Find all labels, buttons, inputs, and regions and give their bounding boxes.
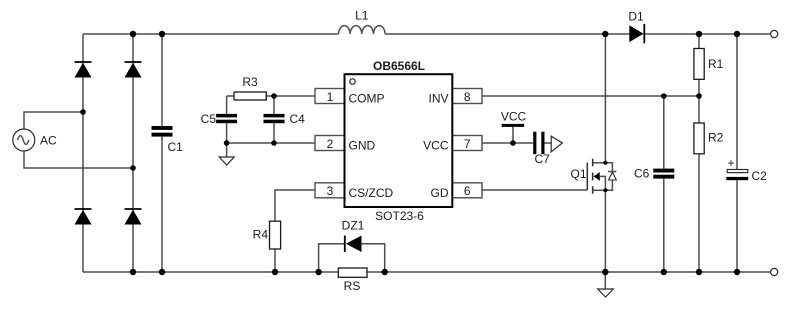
svg-text:C5: C5 <box>201 112 217 126</box>
svg-text:R4: R4 <box>253 228 269 242</box>
svg-text:AC: AC <box>40 134 57 148</box>
svg-text:7: 7 <box>464 137 471 151</box>
svg-text:Q1: Q1 <box>571 167 587 181</box>
svg-text:6: 6 <box>464 184 471 198</box>
svg-text:L1: L1 <box>355 9 369 23</box>
svg-text:GD: GD <box>431 186 449 200</box>
svg-text:C4: C4 <box>290 112 306 126</box>
svg-text:INV: INV <box>428 92 448 106</box>
svg-text:+: + <box>727 156 734 170</box>
svg-text:VCC: VCC <box>423 139 449 153</box>
svg-text:CS/ZCD: CS/ZCD <box>349 186 394 200</box>
svg-text:OB6566L: OB6566L <box>373 59 425 73</box>
svg-text:R2: R2 <box>708 131 724 145</box>
svg-text:R1: R1 <box>708 57 724 71</box>
svg-text:VCC: VCC <box>501 110 527 124</box>
svg-text:DZ1: DZ1 <box>342 219 365 233</box>
svg-text:COMP: COMP <box>349 92 385 106</box>
svg-text:C6: C6 <box>634 166 650 180</box>
svg-text:GND: GND <box>349 139 376 153</box>
svg-text:C7: C7 <box>535 152 551 166</box>
svg-text:R3: R3 <box>242 75 258 89</box>
svg-text:SOT23-6: SOT23-6 <box>375 209 424 223</box>
svg-text:D1: D1 <box>628 10 644 24</box>
svg-text:3: 3 <box>327 184 334 198</box>
svg-text:1: 1 <box>327 90 334 104</box>
svg-text:C1: C1 <box>168 140 184 154</box>
svg-text:RS: RS <box>344 279 361 293</box>
svg-text:2: 2 <box>327 137 334 151</box>
svg-text:C2: C2 <box>752 169 768 183</box>
svg-text:8: 8 <box>464 90 471 104</box>
